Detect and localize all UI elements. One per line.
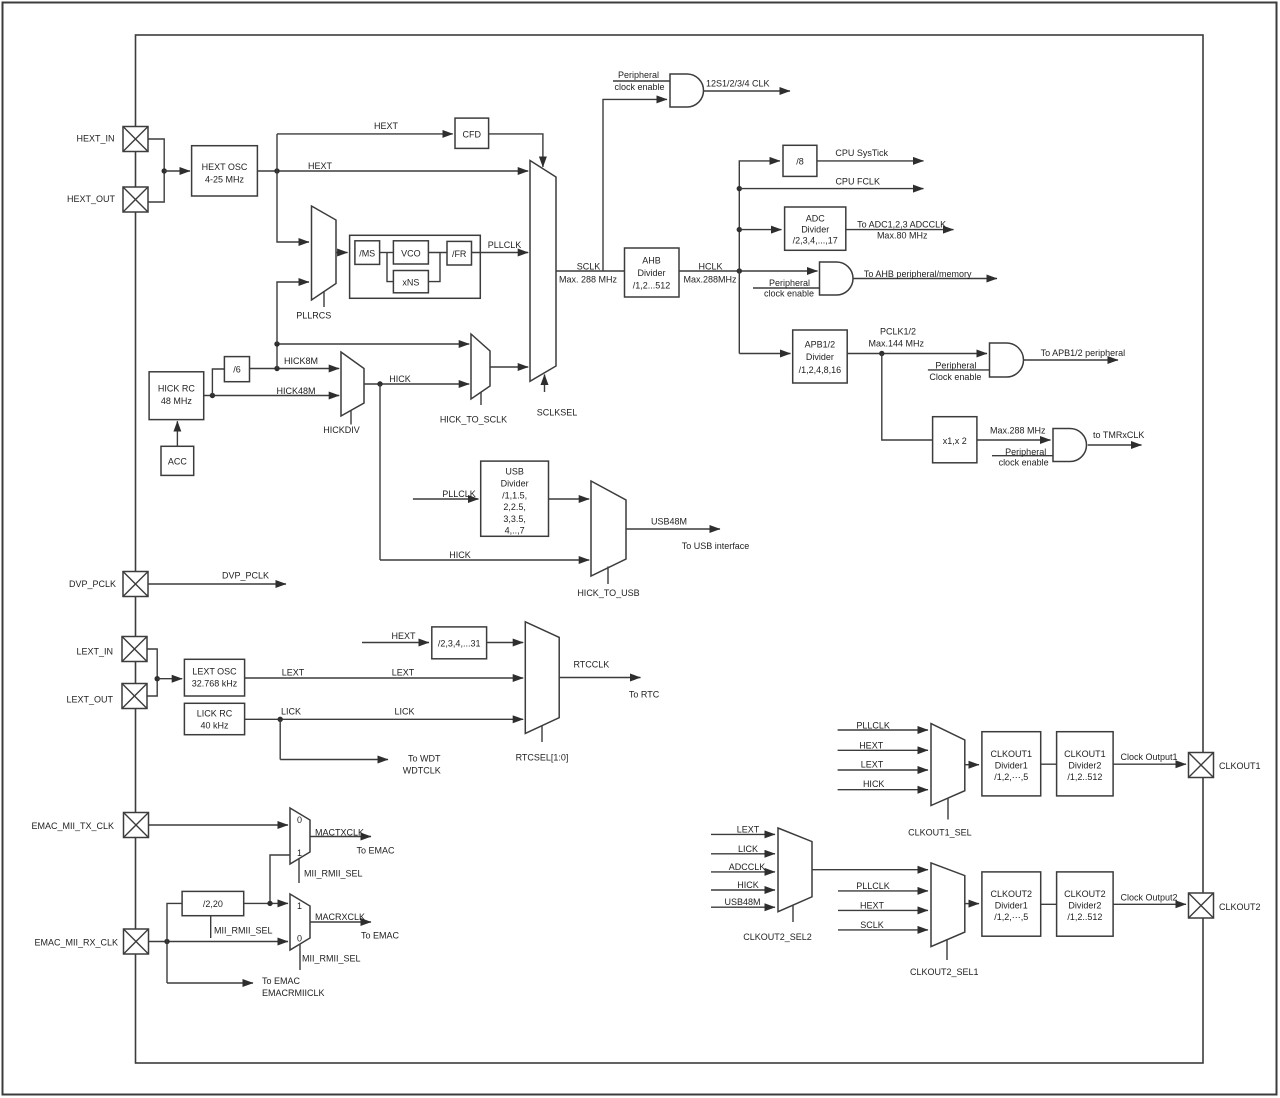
svg-text:EMAC_MII_TX_CLK: EMAC_MII_TX_CLK <box>31 821 114 831</box>
wire LICK to CLKOUT2_SEL2 <box>711 844 775 854</box>
wire SCLK to AHB Divider <box>556 262 625 285</box>
pad CLKOUT1 <box>1189 753 1261 778</box>
node HCLK junction <box>737 268 742 273</box>
wire LEXT to CLKOUT1_SEL <box>838 760 928 771</box>
svg-text:2,2.5,: 2,2.5, <box>503 502 526 512</box>
svg-text:clock enable: clock enable <box>999 458 1049 468</box>
svg-text:HEXT_IN: HEXT_IN <box>76 134 114 144</box>
svg-text:ADCCLK: ADCCLK <box>729 862 766 872</box>
wire HICK8M to PLLRCS input2 <box>277 282 309 344</box>
svg-text:LEXT: LEXT <box>861 760 884 770</box>
wire CLKOUT2_SEL1 output <box>965 903 979 905</box>
svg-text:HEXT OSC: HEXT OSC <box>202 162 248 172</box>
wire /MS to VCO <box>380 252 394 254</box>
svg-text:0: 0 <box>297 934 302 944</box>
wire MACTXCLK output <box>310 828 395 856</box>
wire ADCCLK to CLKOUT2_SEL2 <box>711 862 775 872</box>
wire PLLCLK to SCLKSEL <box>472 240 529 253</box>
node LICK junction <box>278 717 283 722</box>
svg-text:USB: USB <box>505 467 524 477</box>
svg-text:/8: /8 <box>796 157 804 167</box>
svg-text:HEXT: HEXT <box>860 900 885 910</box>
svg-text:LICK RC: LICK RC <box>197 709 233 719</box>
svg-text:/2,3,4,...,17: /2,3,4,...,17 <box>793 236 838 246</box>
wire HEXT branch up to CFD <box>277 121 453 171</box>
svg-text:LICK: LICK <box>394 707 414 717</box>
svg-text:Divider: Divider <box>501 479 529 489</box>
svg-text:Max.80 MHz: Max.80 MHz <box>877 231 928 241</box>
wire Clock Output2 to pad <box>1113 893 1186 905</box>
svg-text:SCLKSEL: SCLKSEL <box>537 408 578 418</box>
wire HICK8M to HICKDIV <box>250 356 340 369</box>
svg-text:VCO: VCO <box>401 249 421 259</box>
svg-text:Max.144 MHz: Max.144 MHz <box>869 339 925 349</box>
svg-text:HEXT_OUT: HEXT_OUT <box>67 194 116 204</box>
svg-text:CLKOUT2: CLKOUT2 <box>991 889 1033 899</box>
svg-text:PLLCLK: PLLCLK <box>856 721 890 731</box>
node PCLK junction <box>879 351 884 356</box>
svg-text:/FR: /FR <box>452 249 467 259</box>
wire ADCCLK output <box>846 220 954 241</box>
svg-text:HICK: HICK <box>389 374 411 384</box>
oscillator HICK RC <box>149 372 204 420</box>
pad HEXT_IN <box>76 127 148 152</box>
svg-text:/2,3,4,...31: /2,3,4,...31 <box>438 639 481 649</box>
svg-text:HICK: HICK <box>737 880 759 890</box>
svg-text:To USB interface: To USB interface <box>682 541 750 551</box>
svg-text:To WDT: To WDT <box>408 754 441 764</box>
svg-text:4,..,7: 4,..,7 <box>505 526 525 536</box>
node HICK junction <box>377 381 382 386</box>
mux HICKDIV <box>323 352 364 435</box>
wire MACRXCLK output <box>310 912 400 941</box>
divider APB1/2 <box>793 330 848 383</box>
CFD block <box>455 118 489 148</box>
svg-text:1: 1 <box>297 901 302 911</box>
svg-text:CLKOUT2_SEL1: CLKOUT2_SEL1 <box>910 967 979 977</box>
wire Max.288 MHz to TMR gate <box>977 426 1051 441</box>
wire to TMRxCLK <box>1088 430 1145 445</box>
svg-text:MACTXCLK: MACTXCLK <box>315 828 364 838</box>
divider /2,3,4,...31 <box>432 627 487 659</box>
mux CLKOUT1_SEL <box>908 724 972 838</box>
svg-text:Peripheral: Peripheral <box>1005 447 1046 457</box>
wire pad junction to LEXT OSC <box>157 678 182 680</box>
mux HICK_TO_SCLK <box>440 334 507 425</box>
svg-text:Divider: Divider <box>637 268 665 278</box>
wire HICK to CLKOUT1_SEL <box>838 779 928 790</box>
divider CLKOUT1 Divider1 <box>982 732 1041 796</box>
svg-text:/MS: /MS <box>359 249 375 259</box>
svg-text:WDTCLK: WDTCLK <box>403 766 441 776</box>
svg-text:HICK: HICK <box>863 779 885 789</box>
wire /2,20 to MACRXCLK input 1 <box>244 902 288 904</box>
wire Divider1 to Divider2 (CLKOUT2) <box>1041 903 1057 905</box>
svg-text:0: 0 <box>297 815 302 825</box>
wire ACC to HICK RC <box>176 421 178 446</box>
wire RMII tap up to MACTXCLK input 1 <box>270 855 290 903</box>
wire RX up to /2,20 <box>167 903 182 941</box>
wire HEXT to RTC divider <box>362 631 429 643</box>
wire SCLK tap up to I2S gate <box>603 99 667 271</box>
divider /MS <box>355 241 380 265</box>
wire HCLK to AHB gate <box>679 262 818 285</box>
svg-text:LICK: LICK <box>281 707 301 717</box>
wire LEXT_IN/LEXT_OUT bracket <box>147 649 157 696</box>
svg-text:Clock enable: Clock enable <box>929 372 981 382</box>
wire LEXT to RTCSEL <box>245 668 524 679</box>
multiplier x1,x2 <box>933 417 977 463</box>
svg-text:HICKDIV: HICKDIV <box>323 425 360 435</box>
svg-text:CLKOUT2_SEL2: CLKOUT2_SEL2 <box>743 932 812 942</box>
wire CFD to SCLKSEL top <box>489 134 543 167</box>
svg-text:ADC: ADC <box>806 214 826 224</box>
divider /8 <box>783 145 817 176</box>
svg-text:MACRXCLK: MACRXCLK <box>315 912 365 922</box>
wire LEXT to CLKOUT2_SEL2 <box>711 824 775 834</box>
svg-text:LEXT_IN: LEXT_IN <box>76 647 113 657</box>
svg-text:Clock Output1: Clock Output1 <box>1120 752 1177 762</box>
svg-text:PLLCLK: PLLCLK <box>442 489 476 499</box>
node /2,20 output junction <box>267 901 272 906</box>
svg-text:To RTC: To RTC <box>629 690 660 700</box>
svg-text:to TMRxCLK: to TMRxCLK <box>1093 430 1144 440</box>
svg-text:32.768 kHz: 32.768 kHz <box>192 679 238 689</box>
wire SCLK to CLKOUT2_SEL1 <box>838 920 928 930</box>
svg-text:SCLK: SCLK <box>860 920 884 930</box>
svg-text:CLKOUT1: CLKOUT1 <box>1219 761 1261 771</box>
svg-text:HCLK: HCLK <box>698 262 722 272</box>
svg-text:To APB1/2 peripheral: To APB1/2 peripheral <box>1041 348 1126 358</box>
wire HICK to HICK_TO_SCLK <box>364 374 469 384</box>
wire To APB1/2 peripheral <box>1024 348 1125 360</box>
svg-text:SCLK: SCLK <box>577 262 601 272</box>
svg-text:/1,2...512: /1,2...512 <box>633 281 671 291</box>
svg-text:x1,x 2: x1,x 2 <box>943 436 967 446</box>
wire USB48M output <box>626 517 749 552</box>
mux MACTXCLK <box>290 808 363 883</box>
svg-text:AHB: AHB <box>642 256 661 266</box>
wire LICK to RTCSEL <box>245 707 524 720</box>
divider AHB <box>625 248 680 297</box>
wire CLKOUT2_SEL2 output to CLKOUT2_SEL1 <box>812 869 928 871</box>
wire PLLRCS output to PLL <box>336 252 348 254</box>
svg-text:MII_RMII_SEL: MII_RMII_SEL <box>302 954 361 964</box>
wire to ADC Divider <box>739 229 781 231</box>
svg-text:Max.288 MHz: Max.288 MHz <box>990 426 1046 436</box>
svg-text:Divider1: Divider1 <box>995 761 1028 771</box>
pad HEXT_OUT <box>67 187 148 212</box>
wire HICK8M up to HICK_TO_SCLK <box>277 344 469 369</box>
divider /FR <box>447 241 472 265</box>
svg-text:/1,2,⋯,5: /1,2,⋯,5 <box>994 772 1028 782</box>
svg-text:HICK8M: HICK8M <box>284 356 318 366</box>
pad EMAC_MII_RX_CLK <box>34 929 148 954</box>
ACC block <box>161 446 194 475</box>
mux RTCSEL <box>516 622 569 763</box>
divider CLKOUT1 Divider2 <box>1057 732 1114 796</box>
mux HICK_TO_USB <box>577 481 639 598</box>
svg-text:CPU SysTick: CPU SysTick <box>835 148 888 158</box>
pad EMAC_MII_TX_CLK <box>31 813 148 838</box>
svg-text:HEXT: HEXT <box>391 631 416 641</box>
node LEXT pad junction <box>155 676 160 681</box>
svg-text:Peripheral: Peripheral <box>769 278 810 288</box>
svg-text:xNS: xNS <box>402 278 419 288</box>
svg-text:Peripheral: Peripheral <box>935 360 976 370</box>
pad LEXT_OUT <box>66 684 147 709</box>
wire VCO to /FR <box>428 252 447 254</box>
node HEXT branch junction <box>274 168 279 173</box>
svg-text:CLKOUT1: CLKOUT1 <box>991 749 1033 759</box>
svg-text:CLKOUT2: CLKOUT2 <box>1219 902 1261 912</box>
wire HEXT to SCLKSEL <box>257 161 528 171</box>
wire RTC divider to RTCSEL <box>487 642 524 644</box>
wire USB Divider to HICK_TO_USB <box>549 498 590 500</box>
divider USB <box>481 461 549 536</box>
divider CLKOUT2 Divider1 <box>982 872 1041 936</box>
svg-text:CLKOUT2: CLKOUT2 <box>1064 889 1106 899</box>
pad LEXT_IN <box>76 637 147 662</box>
chip boundary <box>136 35 1204 1063</box>
svg-text:/6: /6 <box>233 365 241 375</box>
wire LICK to WDT <box>280 719 441 775</box>
wire HEXT to CLKOUT2_SEL1 <box>838 900 928 910</box>
wire 12S1/2/3/4 CLK output <box>704 79 791 92</box>
svg-text:EMAC_MII_RX_CLK: EMAC_MII_RX_CLK <box>34 938 118 948</box>
gate I2S AND <box>670 74 704 107</box>
divider /2,20 <box>182 891 272 938</box>
wire EMAC_MII_TX_CLK to mux <box>149 824 289 826</box>
pad CLKOUT2 <box>1189 893 1261 918</box>
svg-text:Clock Output2: Clock Output2 <box>1120 893 1177 903</box>
svg-text:PLLCLK: PLLCLK <box>488 240 522 250</box>
gate AHB AND <box>820 262 854 295</box>
oscillator HEXT OSC <box>192 146 258 196</box>
wire I2S peripheral clock enable <box>613 70 670 92</box>
svg-text:ACC: ACC <box>168 457 188 467</box>
svg-text:Divider: Divider <box>806 352 834 362</box>
wire Clock Output1 to pad <box>1113 752 1186 764</box>
node HICK RC output junction <box>210 393 215 398</box>
svg-text:HEXT: HEXT <box>308 161 333 171</box>
wire HICK down to HICK_TO_USB <box>380 384 589 560</box>
wire USB48M to CLKOUT2_SEL2 <box>711 897 775 907</box>
wire EMAC_MII_RX_CLK to mux <box>149 941 289 943</box>
wire xNS feedback right <box>428 253 440 282</box>
svg-text:CPU FCLK: CPU FCLK <box>835 177 880 187</box>
wire HCLK to APB1/2 Divider <box>739 353 790 355</box>
svg-text:LEXT: LEXT <box>392 668 415 678</box>
svg-text:12S1/2/3/4 CLK: 12S1/2/3/4 CLK <box>706 79 770 89</box>
PLL block <box>350 235 481 298</box>
oscillator LEXT OSC <box>184 659 244 696</box>
svg-text:HICK_TO_SCLK: HICK_TO_SCLK <box>440 415 507 425</box>
svg-text:USB48M: USB48M <box>651 517 687 527</box>
svg-text:Divider: Divider <box>801 225 829 235</box>
wire PLLCLK to CLKOUT2_SEL1 <box>838 881 928 891</box>
divider ADC <box>785 207 846 250</box>
divider /6 <box>224 357 249 382</box>
wire pad junction to HEXT OSC <box>164 170 190 172</box>
wire AHB peripheral clock enable <box>753 278 820 299</box>
svg-text:/1,2..512: /1,2..512 <box>1067 912 1102 922</box>
wire To AHB peripheral/memory <box>853 269 997 279</box>
mux SCLKSEL <box>530 161 577 418</box>
svg-text:To ADC1,2,3 ADCCLK: To ADC1,2,3 ADCCLK <box>857 220 946 230</box>
wire RTCCLK output <box>559 660 660 700</box>
svg-text:CLKOUT1: CLKOUT1 <box>1064 749 1106 759</box>
wire PLLCLK to USB Divider <box>413 489 479 499</box>
svg-text:clock enable: clock enable <box>764 289 814 299</box>
svg-text:LICK: LICK <box>738 844 758 854</box>
mux PLLRCS <box>296 206 336 321</box>
wire HICK to CLKOUT2_SEL2 <box>711 880 775 890</box>
oscillator LICK RC <box>184 703 244 734</box>
svg-text:LEXT: LEXT <box>737 824 760 834</box>
svg-text:CFD: CFD <box>463 130 482 140</box>
wire CPU SysTick <box>817 148 924 161</box>
svg-text:Peripheral: Peripheral <box>618 70 659 80</box>
svg-text:HICK: HICK <box>449 550 471 560</box>
svg-text:HICK48M: HICK48M <box>276 386 315 396</box>
wire PCLK down to x1,x2 <box>882 354 933 441</box>
wire HCLK vertical distribution <box>739 161 780 354</box>
VCO <box>393 241 428 264</box>
svg-text:3,3.5,: 3,3.5, <box>503 514 526 524</box>
svg-text:clock enable: clock enable <box>614 82 664 92</box>
wire HICK48M <box>204 386 340 396</box>
svg-text:To EMAC: To EMAC <box>262 976 301 986</box>
gate APB AND <box>990 343 1024 377</box>
svg-text:DVP_PCLK: DVP_PCLK <box>69 579 116 589</box>
wire TMR peripheral clock enable <box>992 447 1053 468</box>
svg-text:LEXT OSC: LEXT OSC <box>192 667 237 677</box>
wire CPU FCLK <box>739 177 923 189</box>
wire PCLK1/2 to APB gate <box>847 327 987 354</box>
node HEXT pad junction <box>162 168 167 173</box>
wire junction to /6 <box>212 369 224 396</box>
gate TMR AND <box>1053 429 1087 462</box>
wire HICK_TO_SCLK output <box>490 366 528 368</box>
svg-text:RTCCLK: RTCCLK <box>573 660 609 670</box>
pad DVP_PCLK <box>69 572 148 597</box>
wire DVP_PCLK output <box>149 571 287 585</box>
node HICK8M upper junction <box>274 341 279 346</box>
svg-text:/1,2..512: /1,2..512 <box>1067 772 1102 782</box>
wire CLKOUT1_SEL output <box>965 764 979 766</box>
wire HEXT to CLKOUT1_SEL <box>838 740 928 750</box>
svg-text:HICK_TO_USB: HICK_TO_USB <box>577 588 639 598</box>
mux CLKOUT2_SEL1 <box>910 863 979 977</box>
node CPU FCLK junction <box>737 186 742 191</box>
svg-text:PLLCLK: PLLCLK <box>856 881 890 891</box>
svg-text:LEXT: LEXT <box>282 668 305 678</box>
wire Divider1 to Divider2 <box>1041 763 1057 765</box>
divider CLKOUT2 Divider2 <box>1057 872 1114 936</box>
svg-text:DVP_PCLK: DVP_PCLK <box>222 571 269 581</box>
svg-text:Divider2: Divider2 <box>1068 901 1101 911</box>
wire APB peripheral clock enable <box>928 360 990 382</box>
svg-text:To AHB peripheral/memory: To AHB peripheral/memory <box>864 269 972 279</box>
wire HEXT_IN/HEXT_OUT bracket <box>148 139 164 202</box>
svg-text:48 MHz: 48 MHz <box>161 396 193 406</box>
svg-text:To EMAC: To EMAC <box>361 931 400 941</box>
svg-text:Max.288MHz: Max.288MHz <box>683 275 737 285</box>
svg-text:APB1/2: APB1/2 <box>805 340 836 350</box>
node ADC junction <box>737 227 742 232</box>
svg-text:/1,2,4,8,16: /1,2,4,8,16 <box>799 365 842 375</box>
svg-text:1: 1 <box>297 848 302 858</box>
svg-text:HICK RC: HICK RC <box>158 384 196 394</box>
wire HEXT branch down to PLLRCS <box>277 171 309 242</box>
svg-text:/1,2,⋯,5: /1,2,⋯,5 <box>994 912 1028 922</box>
svg-text:MII_RMII_SEL: MII_RMII_SEL <box>304 869 363 879</box>
svg-text:LEXT_OUT: LEXT_OUT <box>66 695 113 705</box>
wire xNS feedback left <box>387 253 393 282</box>
svg-text:4-25 MHz: 4-25 MHz <box>205 175 245 185</box>
mux CLKOUT2_SEL2 <box>743 828 812 942</box>
svg-text:EMACRMIICLK: EMACRMIICLK <box>262 988 325 998</box>
svg-text:Divider2: Divider2 <box>1068 761 1101 771</box>
mux MACRXCLK <box>290 894 361 970</box>
multiplier xNS <box>393 271 428 293</box>
svg-text:/2,20: /2,20 <box>203 899 223 909</box>
node EMAC RX junction <box>164 939 169 944</box>
svg-text:RTCSEL[1:0]: RTCSEL[1:0] <box>516 753 569 763</box>
node HICK8M junction <box>274 366 279 371</box>
wire RX down to EMACRMIICLK <box>167 942 325 999</box>
svg-text:40 kHz: 40 kHz <box>200 721 229 731</box>
svg-text:Max. 288 MHz: Max. 288 MHz <box>559 275 618 285</box>
svg-text:To EMAC: To EMAC <box>356 846 395 856</box>
svg-text:MII_RMII_SEL: MII_RMII_SEL <box>214 926 273 936</box>
wire PLLCLK to CLKOUT1_SEL <box>838 721 928 731</box>
svg-text:PCLK1/2: PCLK1/2 <box>880 327 916 337</box>
svg-text:HEXT: HEXT <box>374 121 399 131</box>
svg-text:Divider1: Divider1 <box>995 901 1028 911</box>
svg-text:CLKOUT1_SEL: CLKOUT1_SEL <box>908 827 972 837</box>
svg-text:HEXT: HEXT <box>859 740 884 750</box>
svg-text:USB48M: USB48M <box>724 897 760 907</box>
svg-text:/1,1.5,: /1,1.5, <box>502 490 527 500</box>
svg-text:PLLRCS: PLLRCS <box>296 311 331 321</box>
